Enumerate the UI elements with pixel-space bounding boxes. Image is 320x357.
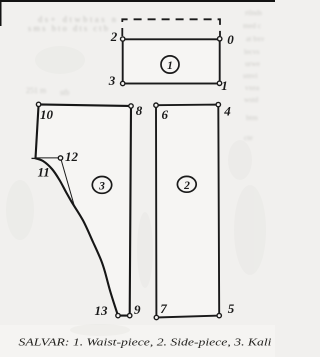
thin construction line 11 to 12 xyxy=(37,157,61,159)
node 6 (top-left of piece 2) xyxy=(154,103,158,107)
circled label 2 xyxy=(177,176,196,192)
bleed-through text top-left xyxy=(28,14,117,33)
node 5 (bottom-right of piece 2) xyxy=(217,313,221,317)
node 7 (bottom-left of piece 2) xyxy=(154,315,158,319)
scan edge: top black bar xyxy=(0,0,275,2)
svg-text:smvi: smvi xyxy=(243,71,258,80)
svg-text:vxea: vxea xyxy=(245,83,260,92)
svg-text:3: 3 xyxy=(98,181,105,193)
svg-text:1: 1 xyxy=(167,60,173,72)
piece 1 outline rectangle xyxy=(123,39,220,83)
svg-text:lecvs: lecvs xyxy=(244,47,259,56)
bleed-through text right margin xyxy=(243,8,265,142)
scan edge: left top sliver xyxy=(0,0,2,26)
svg-text:2: 2 xyxy=(110,29,118,44)
svg-text:SALVAR: 1. Waist-piece, 2. Sid: SALVAR: 1. Waist-piece, 2. Side-piece, 3… xyxy=(19,338,272,349)
svg-text:8: 8 xyxy=(136,103,143,118)
svg-text:cte: cte xyxy=(244,133,253,142)
svg-text:11: 11 xyxy=(37,165,49,180)
node 8 (top-right of piece 3) xyxy=(129,104,133,108)
svg-text:at bxv: at bxv xyxy=(246,34,265,43)
tick at node 11 xyxy=(32,157,37,159)
svg-text:med c: med c xyxy=(243,21,262,30)
circled label 3 xyxy=(92,177,111,194)
svg-text:1: 1 xyxy=(221,78,228,93)
svg-text:9: 9 xyxy=(134,302,141,317)
scan mottling xyxy=(6,46,266,336)
piece 2 outline xyxy=(156,105,219,318)
node 2 (top-left of piece 1) xyxy=(121,37,125,41)
circled label 1 xyxy=(161,56,179,73)
svg-text:12: 12 xyxy=(65,149,79,164)
node 13 (bottom-left of piece 3) xyxy=(116,313,120,317)
svg-text:4: 4 xyxy=(223,104,231,119)
svg-text:251 m: 251 m xyxy=(26,86,47,95)
svg-text:stb: stb xyxy=(60,88,69,97)
thin construction line 12 down to curve xyxy=(61,158,75,206)
svg-text:sms bto dts ctb: sms bto dts ctb xyxy=(28,23,108,33)
svg-text:3: 3 xyxy=(108,73,116,88)
piece 3 outline: top edge, right edge, bottom edge, curve, left edge xyxy=(36,104,132,315)
node 4 (top-right of piece 2) xyxy=(216,102,220,106)
node 3 (bottom-left of piece 1) xyxy=(121,81,125,85)
svg-text:13: 13 xyxy=(95,303,109,318)
svg-text:rtlnds: rtlnds xyxy=(245,8,262,17)
node 12 xyxy=(58,156,62,160)
svg-text:10: 10 xyxy=(40,107,54,122)
node 9 (bottom-right of piece 3) xyxy=(128,313,132,317)
bleed-through marks mid-left xyxy=(26,86,69,97)
node 1 (bottom-right of piece 1) xyxy=(217,81,221,85)
svg-text:btm: btm xyxy=(246,113,258,122)
svg-text:6: 6 xyxy=(161,107,168,122)
svg-text:0: 0 xyxy=(227,32,234,47)
dashed fold-out outline of piece 1 xyxy=(122,19,220,36)
svg-text:urwe: urwe xyxy=(245,59,261,68)
svg-text:2: 2 xyxy=(183,180,190,192)
svg-text:7: 7 xyxy=(160,301,167,316)
node 10 (top-left of piece 3) xyxy=(36,102,40,106)
svg-text:5: 5 xyxy=(228,301,235,316)
svg-text:wstd: wstd xyxy=(244,95,258,104)
node 0 (top-right of piece 1) xyxy=(218,37,222,41)
